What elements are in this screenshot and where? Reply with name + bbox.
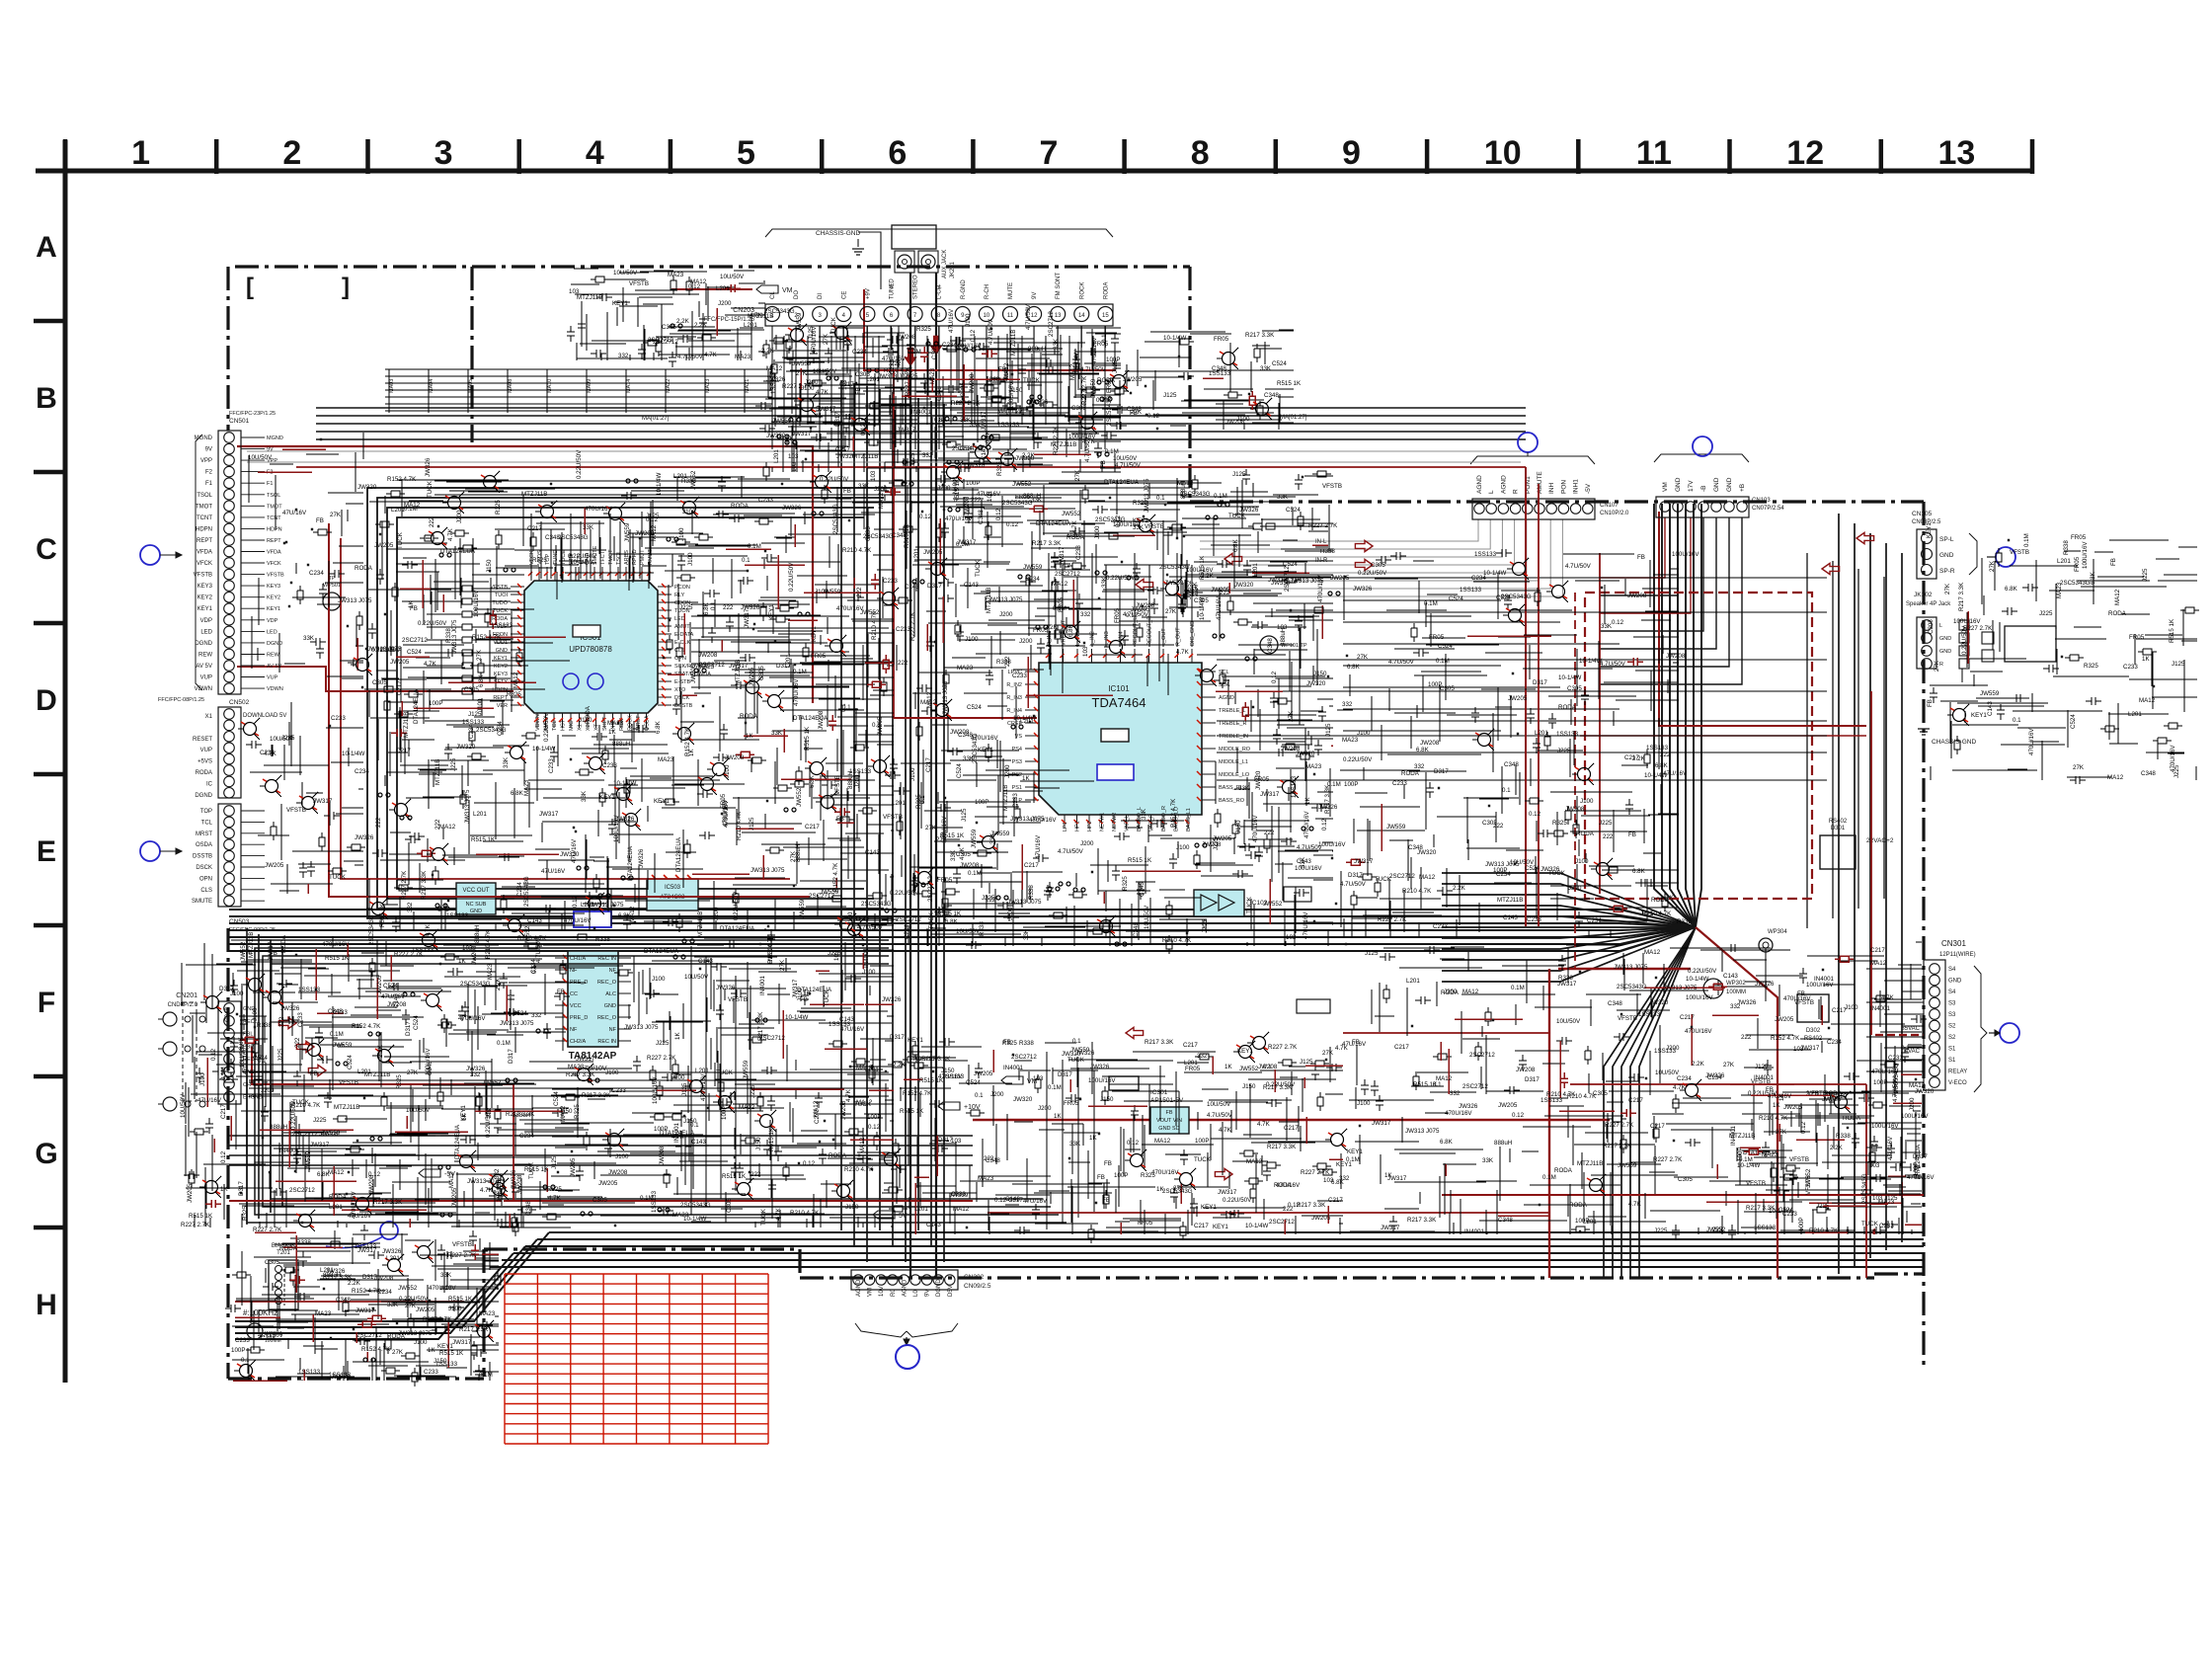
svg-text:0.22U/50V: 0.22U/50V — [1223, 1197, 1252, 1204]
svg-text:DGND: DGND — [267, 641, 282, 647]
component cluster top-left of jack — [567, 269, 765, 367]
svg-text:MA12: MA12 — [1154, 1138, 1171, 1145]
svg-text:DTA124EUA: DTA124EUA — [413, 688, 420, 724]
svg-text:RODA: RODA — [196, 770, 212, 776]
svg-text:VFCK: VFCK — [267, 561, 281, 567]
svg-text:J150: J150 — [683, 1118, 697, 1125]
svg-text:MA21: MA21 — [745, 379, 750, 393]
svg-text:R_IN4: R_IN4 — [1006, 708, 1022, 714]
svg-text:JW317: JW317 — [792, 431, 812, 437]
svg-text:C305: C305 — [855, 371, 870, 378]
svg-text:C234: C234 — [309, 570, 324, 577]
ruler tick — [1122, 139, 1127, 174]
svg-text:DTA124EUA: DTA124EUA — [675, 836, 682, 872]
svg-text:33K: 33K — [1238, 785, 1250, 792]
svg-text:27K: 27K — [1723, 1062, 1735, 1069]
svg-text:BASS_L1: BASS_L1 — [1186, 808, 1192, 831]
svg-text:TMOT: TMOT — [267, 504, 282, 510]
svg-text:JW317: JW317 — [268, 941, 275, 961]
svg-text:MA10: MA10 — [547, 379, 553, 393]
svg-text:FB: FB — [1104, 1160, 1112, 1167]
svg-text:NETW2: NETW2 — [1112, 813, 1118, 831]
svg-text:JW313 J075: JW313 J075 — [1614, 964, 1648, 971]
svg-text:R217 3.3K: R217 3.3K — [421, 870, 428, 900]
svg-text:D317: D317 — [405, 1021, 412, 1036]
svg-text:R210 4.7K: R210 4.7K — [485, 929, 492, 959]
svg-text:27K: 27K — [1989, 560, 1996, 572]
svg-text:JW559: JW559 — [796, 312, 803, 332]
svg-text:R515 1K: R515 1K — [325, 955, 350, 962]
svg-text:C233: C233 — [883, 578, 898, 585]
svg-text:J100: J100 — [252, 1007, 259, 1021]
maroon ring around IC501 inner — [341, 538, 790, 879]
svg-text:2SC2712: 2SC2712 — [1389, 873, 1415, 880]
component cluster TDA field — [889, 469, 1333, 954]
svg-text:MA[01:27]: MA[01:27] — [1280, 415, 1307, 421]
svg-text:JW317: JW317 — [1260, 791, 1280, 798]
svg-text:222: 222 — [750, 1171, 761, 1178]
svg-text:L: L — [1939, 623, 1942, 629]
svg-text:1: 1 — [131, 134, 150, 172]
svg-text:C348: C348 — [2141, 770, 2156, 777]
svg-text:J200: J200 — [261, 1087, 275, 1094]
IC102 op-amp body — [1194, 890, 1244, 916]
svg-text:MTZJ11B: MTZJ11B — [434, 759, 441, 785]
svg-text:C524: C524 — [2070, 714, 2077, 729]
svg-text:5: 5 — [737, 134, 755, 172]
svg-text:C524: C524 — [1449, 595, 1463, 602]
service grid table — [505, 1274, 768, 1444]
svg-text:0.1M: 0.1M — [479, 1372, 493, 1379]
maroon dashed 35VAC — [1875, 1034, 1924, 1036]
svg-text:2.2K: 2.2K — [1453, 885, 1466, 892]
svg-text:2: 2 — [282, 134, 301, 172]
svg-text:IN4001: IN4001 — [863, 947, 870, 968]
svg-text:TMOT: TMOT — [196, 504, 212, 510]
svg-text:J150: J150 — [755, 1137, 762, 1150]
svg-text:470U/16V: 470U/16V — [700, 1073, 707, 1101]
IC501 blue pad 2 — [588, 673, 603, 689]
svg-text:S3: S3 — [1948, 1001, 1956, 1007]
svg-text:JW320: JW320 — [1013, 1096, 1033, 1103]
aux jack JK201 — [892, 225, 936, 249]
svg-text:JW320: JW320 — [767, 943, 774, 963]
voltage tag +10V G — [938, 1102, 960, 1110]
svg-text:C233: C233 — [1879, 1223, 1894, 1229]
svg-text:R325: R325 — [242, 1206, 249, 1221]
svg-text:VDWN: VDWN — [267, 686, 283, 692]
wire FR bus lines row C — [434, 481, 1190, 502]
svg-text:C217: C217 — [1008, 1197, 1023, 1204]
svg-text:0.22U/50V: 0.22U/50V — [371, 647, 401, 654]
svg-text:FFC/FPC-08P/1.25: FFC/FPC-08P/1.25 — [158, 697, 204, 703]
svg-text:JW320: JW320 — [1234, 582, 1254, 589]
svg-text:6.8K: 6.8K — [1440, 1139, 1454, 1146]
svg-text:D317: D317 — [1067, 532, 1082, 539]
svg-text:103: 103 — [841, 379, 848, 390]
svg-text:MA12: MA12 — [1177, 480, 1194, 487]
svg-text:0.1: 0.1 — [710, 601, 717, 610]
svg-text:470U/16V: 470U/16V — [429, 1285, 456, 1292]
svg-text:JW559: JW559 — [624, 522, 631, 542]
svg-text:OSDA: OSDA — [196, 842, 212, 848]
svg-text:R338: R338 — [595, 936, 610, 943]
svg-text:27K: 27K — [407, 1069, 419, 1076]
svg-text:0.1: 0.1 — [742, 557, 750, 564]
wire IC301 area verticals — [1047, 1052, 1094, 1229]
svg-text:RODA: RODA — [1274, 1182, 1293, 1189]
svg-text:J100: J100 — [605, 1069, 619, 1076]
svg-text:27K: 27K — [2073, 764, 2085, 771]
svg-text:CN09/2.5: CN09/2.5 — [964, 1283, 991, 1290]
svg-text:+5VS: +5VS — [197, 759, 212, 765]
maroon ring around IC501 outer — [329, 523, 810, 897]
svg-text:CE: CE — [841, 291, 847, 299]
svg-text:FB: FB — [1797, 990, 1805, 997]
svg-text:C233: C233 — [1527, 916, 1541, 923]
svg-text:R338: R338 — [1677, 918, 1692, 925]
wire bundle to nest left — [229, 910, 1696, 927]
connector CN103 — [1656, 497, 1749, 517]
maroon right bottom rail — [1442, 1194, 1924, 1196]
maroon H segment — [235, 1301, 464, 1303]
component cluster right of CN501 — [238, 433, 372, 894]
svg-text:VDP: VDP — [200, 618, 212, 624]
svg-text:MA23: MA23 — [568, 1064, 585, 1070]
svg-text:C305: C305 — [758, 666, 765, 680]
svg-text:IN-L: IN-L — [1315, 539, 1327, 545]
svg-text:NC SUB: NC SUB — [466, 902, 487, 908]
maroon left F loop — [252, 1047, 513, 1084]
svg-text:JW208: JW208 — [1516, 1067, 1536, 1073]
svg-text:R515 1K: R515 1K — [439, 1350, 464, 1357]
svg-text:C234: C234 — [1827, 1039, 1842, 1046]
svg-text:DGND: DGND — [936, 1279, 942, 1297]
wire vertical bundle center — [840, 380, 842, 1230]
svg-text:2SC5343G: 2SC5343G — [832, 504, 839, 534]
svg-text:R227 2.7K: R227 2.7K — [1301, 1169, 1330, 1176]
svg-text:100P: 100P — [1798, 1218, 1805, 1231]
svg-text:2.2K: 2.2K — [676, 318, 690, 325]
svg-text:JW205: JW205 — [374, 542, 394, 549]
arrow pair IN-L — [1355, 540, 1373, 551]
svg-text:+9V: +9V — [865, 288, 871, 299]
board outline bottom-left — [228, 1377, 484, 1380]
svg-text:MA12: MA12 — [1870, 960, 1887, 967]
svg-text:FB: FB — [1927, 699, 1934, 707]
svg-text:470U/16V: 470U/16V — [1091, 337, 1098, 364]
svg-text:4.7U/50V: 4.7U/50V — [1388, 659, 1415, 666]
svg-text:JW326: JW326 — [882, 996, 902, 1003]
IC U501 UPD780878 body — [524, 581, 658, 713]
svg-text:MA12: MA12 — [1462, 989, 1479, 995]
svg-text:AGND: AGND — [1500, 475, 1507, 494]
svg-text:R338: R338 — [979, 921, 986, 936]
svg-text:1SS133: 1SS133 — [942, 1073, 965, 1080]
svg-text:R152 4.7K: R152 4.7K — [1771, 1035, 1800, 1042]
svg-text:R152 4.7K: R152 4.7K — [1170, 798, 1177, 828]
blue rect F — [574, 911, 611, 927]
svg-text:R227 2.7K: R227 2.7K — [951, 400, 981, 407]
wire ring around IC501 — [367, 488, 894, 918]
svg-text:J100: J100 — [862, 969, 876, 976]
blue ref circle G — [380, 1222, 398, 1239]
svg-text:R217 3.3K: R217 3.3K — [459, 1326, 489, 1333]
svg-text:0.22U/50V: 0.22U/50V — [733, 891, 740, 920]
svg-text:JW205: JW205 — [598, 1180, 618, 1187]
svg-text:KEY1: KEY1 — [437, 1343, 453, 1350]
svg-text:6.8K: 6.8K — [2090, 571, 2096, 585]
svg-text:103: 103 — [951, 1138, 962, 1145]
svg-text:JW205: JW205 — [319, 1131, 339, 1138]
IC101 pin stubs left — [1025, 671, 1039, 673]
connector CN502 — [218, 707, 241, 798]
svg-text:VFSTB: VFSTB — [1746, 1180, 1766, 1187]
svg-text:C233: C233 — [1392, 780, 1407, 787]
svg-text:R515 1K: R515 1K — [471, 836, 496, 843]
svg-text:35VAC: 35VAC — [1901, 1026, 1920, 1032]
svg-text:8: 8 — [1191, 134, 1210, 172]
svg-text:REW: REW — [267, 653, 280, 659]
svg-text:JW313 J075: JW313 J075 — [942, 680, 949, 715]
svg-text:J100: J100 — [615, 1153, 629, 1160]
svg-text:J125: J125 — [1365, 950, 1379, 957]
svg-text:47U/16V: 47U/16V — [571, 838, 578, 863]
svg-text:GND: GND — [1726, 477, 1733, 492]
component cluster CN203 area — [755, 322, 1129, 483]
svg-text:10U/50V: 10U/50V — [613, 270, 638, 277]
svg-text:JW559: JW559 — [792, 360, 812, 367]
IC503 AT24C02 body — [647, 879, 698, 911]
svg-text:TUCK: TUCK — [397, 531, 404, 549]
svg-text:C234: C234 — [1677, 1075, 1692, 1082]
svg-text:MTZJ11B: MTZJ11B — [852, 453, 878, 460]
svg-text:470U/16V: 470U/16V — [945, 515, 973, 522]
svg-text:17V: 17V — [1688, 480, 1695, 492]
svg-text:JW326: JW326 — [1459, 1103, 1478, 1110]
ruler tick — [1425, 139, 1430, 174]
connector CN105 — [1917, 529, 1936, 579]
maroon speaker feed — [1659, 512, 1866, 726]
svg-text:D317: D317 — [1434, 768, 1449, 775]
svg-text:2SC5343G: 2SC5343G — [680, 1202, 711, 1209]
svg-text:R325: R325 — [2084, 663, 2098, 670]
svg-text:27K: 27K — [1074, 469, 1081, 481]
svg-text:CC: CC — [570, 991, 578, 997]
svg-text:FR05: FR05 — [2129, 634, 2145, 641]
svg-text:CHASSIS-GND: CHASSIS-GND — [816, 230, 860, 237]
svg-text:MIDDLE_L1: MIDDLE_L1 — [1219, 759, 1248, 765]
svg-text:4.7K: 4.7K — [1219, 1127, 1232, 1134]
svg-text:TREBLE_R: TREBLE_R — [1219, 721, 1246, 727]
svg-text:C348: C348 — [1267, 638, 1274, 653]
maroon aux arrows — [905, 348, 915, 365]
maroon bottom rail — [973, 1119, 1610, 1121]
svg-text:C305: C305 — [1567, 685, 1582, 692]
svg-text:J100: J100 — [1236, 416, 1250, 423]
svg-text:JW208: JW208 — [897, 334, 916, 341]
svg-text:J125: J125 — [551, 1155, 558, 1169]
svg-text:0.1M: 0.1M — [330, 1031, 344, 1038]
svg-text:VFSTB: VFSTB — [1322, 483, 1342, 490]
svg-text:2.2K: 2.2K — [1830, 1145, 1844, 1151]
svg-text:F2: F2 — [205, 470, 213, 476]
svg-text:9V: 9V — [205, 447, 212, 453]
transformer T201 — [269, 1260, 298, 1309]
svg-text:222: 222 — [723, 604, 734, 611]
IC U101 TDA7464 body — [1039, 663, 1202, 815]
svg-text:11: 11 — [1007, 313, 1014, 319]
IC101 blue rect — [1097, 764, 1134, 780]
svg-text:R210 4.7K: R210 4.7K — [1809, 1227, 1839, 1234]
svg-text:0.1M: 0.1M — [1105, 448, 1119, 455]
maroon VM tag line top — [671, 288, 752, 290]
svg-text:J100: J100 — [724, 764, 731, 778]
svg-text:TUCK: TUCK — [1246, 896, 1253, 913]
svg-text:FR05: FR05 — [1138, 1220, 1153, 1227]
svg-text:4: 4 — [586, 134, 604, 172]
svg-text:R515 1K: R515 1K — [722, 1173, 747, 1180]
svg-text:FB: FB — [1097, 1174, 1105, 1181]
svg-text:TUCK: TUCK — [1861, 1221, 1879, 1227]
svg-text:J200: J200 — [990, 1091, 1004, 1098]
svg-text:C524: C524 — [1272, 360, 1287, 367]
svg-text:D317: D317 — [508, 1049, 514, 1064]
svg-text:TOP: TOP — [200, 809, 212, 815]
svg-text:HP2: HP2 — [1087, 821, 1093, 831]
svg-text:RS402: RS402 — [1829, 819, 1848, 825]
ruler tick — [669, 139, 673, 174]
svg-text:IN4001: IN4001 — [1003, 1065, 1024, 1071]
svg-text:JW559: JW559 — [1023, 564, 1043, 571]
svg-text:R338: R338 — [445, 628, 452, 643]
svg-text:L201: L201 — [329, 1204, 343, 1211]
svg-text:JW205: JW205 — [451, 1187, 458, 1207]
svg-text:470U/16V: 470U/16V — [1445, 1110, 1472, 1117]
svg-text:L201: L201 — [1535, 730, 1548, 737]
svg-text:R: R — [1513, 489, 1520, 494]
svg-text:FFC/FPC-23P/1.25: FFC/FPC-23P/1.25 — [229, 411, 276, 417]
svg-text:0.1M: 0.1M — [1542, 1174, 1556, 1181]
svg-text:MRST: MRST — [196, 831, 212, 837]
svg-text:JW317: JW317 — [1557, 981, 1577, 988]
svg-text:470U/16V: 470U/16V — [585, 506, 612, 513]
svg-text:GND: GND — [1939, 636, 1951, 642]
svg-text:J225: J225 — [2173, 764, 2180, 778]
IC201 pin row 6 — [555, 1016, 568, 1018]
svg-text:JW552: JW552 — [524, 925, 531, 945]
svg-text:REPT: REPT — [197, 538, 212, 544]
svg-text:JW313 J075: JW313 J075 — [451, 619, 458, 654]
maroon right vertical 2 — [1870, 691, 1872, 1035]
svg-text:R515 1K: R515 1K — [804, 726, 811, 751]
svg-text:0.12: 0.12 — [1288, 1202, 1301, 1209]
svg-text:0.1M: 0.1M — [1096, 397, 1110, 404]
svg-text:DTA124EUA: DTA124EUA — [454, 1124, 461, 1159]
svg-text:0.12: 0.12 — [572, 895, 579, 908]
svg-text:CN503: CN503 — [229, 918, 250, 925]
svg-text:R325: R325 — [916, 326, 931, 333]
svg-text:CH1/A: CH1/A — [570, 956, 587, 962]
svg-text:1SS133: 1SS133 — [435, 1361, 458, 1368]
svg-text:S4: S4 — [1948, 990, 1956, 995]
svg-text:100U/16V: 100U/16V — [1295, 865, 1322, 872]
svg-text:JW205: JW205 — [390, 659, 410, 666]
svg-text:MA12: MA12 — [1436, 1075, 1453, 1082]
svg-text:C305: C305 — [956, 851, 971, 858]
svg-text:470U/16V: 470U/16V — [2028, 728, 2035, 755]
svg-text:J200: J200 — [999, 611, 1013, 618]
svg-text:222: 222 — [1603, 833, 1614, 840]
svg-text:0.1M: 0.1M — [968, 870, 982, 877]
svg-text:JW208: JW208 — [960, 862, 980, 869]
svg-text:REW: REW — [198, 653, 212, 659]
svg-text:DTA124EUA: DTA124EUA — [660, 1130, 695, 1137]
IC501 internal rect — [573, 625, 600, 637]
svg-text:100U/16V: 100U/16V — [1686, 994, 1713, 1001]
svg-text:R325: R325 — [396, 1074, 403, 1089]
svg-text:JW320: JW320 — [966, 462, 986, 469]
svg-text:J100: J100 — [477, 698, 484, 712]
svg-text:47U/16V: 47U/16V — [1023, 1198, 1048, 1205]
svg-text:RODA: RODA — [1401, 770, 1420, 777]
svg-text:0.12: 0.12 — [1512, 1112, 1525, 1119]
svg-text:C233: C233 — [1012, 673, 1027, 679]
IC201 pin row 5 — [555, 1004, 568, 1006]
svg-text:+B: +B — [1739, 484, 1746, 492]
svg-text:JW317: JW317 — [1218, 1189, 1237, 1196]
svg-text:V-ECO: V-ECO — [1948, 1080, 1967, 1086]
ruler tick — [365, 139, 370, 174]
svg-text:MA23: MA23 — [607, 720, 624, 727]
svg-text:J150: J150 — [1235, 820, 1242, 833]
svg-text:0.1M: 0.1M — [908, 349, 921, 356]
svg-text:R_IN3: R_IN3 — [1006, 695, 1022, 701]
svg-text:0.22U/50V: 0.22U/50V — [1358, 570, 1387, 577]
svg-text:R152 4.7K: R152 4.7K — [832, 862, 839, 892]
svg-text:]: ] — [342, 274, 350, 300]
svg-text:C305: C305 — [265, 1259, 279, 1266]
svg-text:R515 1K: R515 1K — [900, 1108, 924, 1115]
svg-text:470U/16V: 470U/16V — [1252, 815, 1259, 842]
blue ref circle row C left — [140, 545, 160, 565]
svg-text:33K: 33K — [1069, 1141, 1081, 1148]
svg-text:E-STB: E-STB — [674, 679, 691, 685]
svg-text:C143: C143 — [691, 1139, 706, 1146]
svg-text:2SC2712: 2SC2712 — [402, 637, 428, 644]
svg-text:D317: D317 — [219, 986, 234, 992]
svg-text:TUCK: TUCK — [830, 316, 837, 334]
svg-text:2.2K: 2.2K — [348, 1280, 361, 1287]
svg-text:10V: 10V — [879, 1286, 885, 1297]
svg-text:10U/50V: 10U/50V — [1144, 905, 1150, 929]
svg-text:J100: J100 — [414, 1339, 428, 1346]
svg-text:4.7U/50V: 4.7U/50V — [1600, 661, 1626, 668]
svg-text:10: 10 — [984, 313, 990, 319]
svg-text:R227 2.7K: R227 2.7K — [647, 1055, 676, 1062]
svg-text:C217: C217 — [1870, 947, 1885, 954]
svg-text:C143: C143 — [865, 849, 880, 856]
svg-text:MA12: MA12 — [859, 1137, 866, 1153]
svg-text:RODA: RODA — [731, 503, 750, 510]
svg-text:13: 13 — [1055, 313, 1062, 319]
row tick — [34, 923, 65, 928]
svg-text:6.8K: 6.8K — [1067, 623, 1074, 637]
IC502 regulator body — [456, 883, 496, 914]
svg-text:4.7K: 4.7K — [1071, 519, 1078, 533]
wire verticals above IC101 — [1049, 553, 1192, 647]
svg-text:0.12: 0.12 — [1800, 1121, 1807, 1134]
